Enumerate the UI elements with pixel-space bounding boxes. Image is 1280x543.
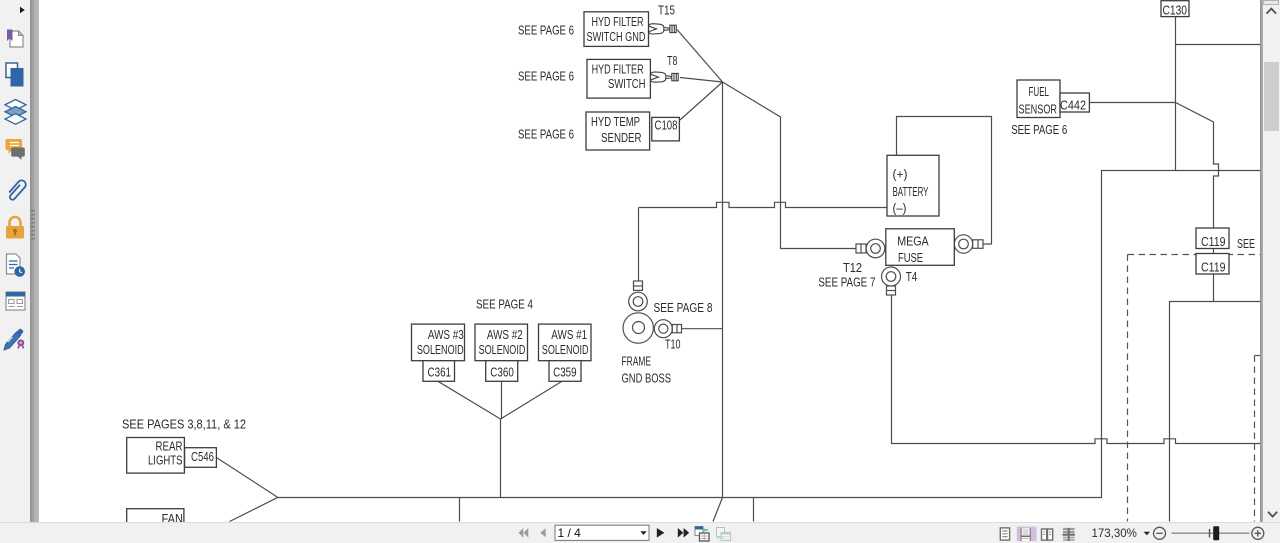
svg-text:T15: T15	[658, 3, 675, 17]
svg-text:LIGHTS: LIGHTS	[148, 453, 183, 467]
svg-text:FUSE: FUSE	[898, 251, 923, 265]
svg-text:173,30%: 173,30%	[1092, 528, 1137, 540]
svg-text:(–): (–)	[893, 202, 907, 216]
svg-text:HYD FILTER: HYD FILTER	[592, 62, 644, 76]
svg-text:SEE PAGE 6: SEE PAGE 6	[518, 70, 574, 84]
svg-text:SEE PAGE 6: SEE PAGE 6	[1011, 123, 1067, 137]
svg-text:FRAME: FRAME	[622, 355, 652, 369]
svg-text:SEE PAGE 4: SEE PAGE 4	[476, 297, 533, 311]
svg-text:SEE PAGE 7: SEE PAGE 7	[818, 276, 875, 290]
svg-text:BATTERY: BATTERY	[893, 185, 929, 199]
svg-text:FUEL: FUEL	[1029, 84, 1050, 99]
svg-text:T4: T4	[906, 270, 918, 284]
svg-text:SENSOR: SENSOR	[1019, 101, 1058, 116]
svg-text:C130: C130	[1163, 2, 1188, 17]
svg-text:C359: C359	[553, 365, 577, 379]
svg-text:C119: C119	[1201, 234, 1226, 249]
svg-text:AWS #2: AWS #2	[487, 328, 523, 342]
svg-text:SWITCH: SWITCH	[608, 77, 646, 91]
svg-text:C442: C442	[1060, 97, 1086, 112]
svg-text:MEGA: MEGA	[897, 235, 929, 249]
svg-text:C361: C361	[428, 365, 452, 379]
svg-text:SEE PAGES 3,8,11, & 12: SEE PAGES 3,8,11, & 12	[122, 417, 246, 431]
svg-text:(+): (+)	[893, 168, 908, 182]
svg-text:T8: T8	[667, 54, 678, 68]
svg-text:SEE: SEE	[1237, 237, 1255, 251]
svg-text:SOLENOID: SOLENOID	[417, 343, 464, 357]
svg-text:SEE PAGE 6: SEE PAGE 6	[518, 128, 574, 142]
svg-text:AWS #3: AWS #3	[428, 328, 464, 342]
svg-text:T12: T12	[843, 261, 862, 275]
svg-text:GND BOSS: GND BOSS	[622, 371, 672, 385]
svg-text:SEE PAGE 8: SEE PAGE 8	[654, 301, 713, 315]
svg-text:SENDER: SENDER	[601, 131, 642, 145]
svg-text:T10: T10	[665, 338, 681, 352]
svg-text:HYD FILTER: HYD FILTER	[592, 15, 644, 29]
svg-text:C119: C119	[1201, 259, 1226, 274]
svg-text:SEE PAGE 6: SEE PAGE 6	[518, 24, 574, 38]
svg-text:AWS #1: AWS #1	[551, 328, 587, 342]
svg-text:C360: C360	[490, 365, 514, 379]
svg-text:C546: C546	[191, 450, 214, 464]
svg-text:REAR: REAR	[156, 439, 183, 453]
svg-text:SWITCH GND: SWITCH GND	[587, 30, 646, 44]
svg-text:1 / 4: 1 / 4	[558, 526, 582, 540]
svg-text:SOLENOID: SOLENOID	[542, 343, 589, 357]
svg-text:HYD TEMP: HYD TEMP	[591, 115, 640, 129]
svg-text:SOLENOID: SOLENOID	[479, 343, 526, 357]
svg-text:C108: C108	[655, 119, 678, 133]
